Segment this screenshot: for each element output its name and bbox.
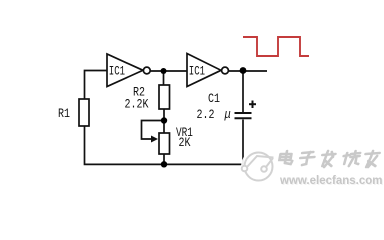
svg-text:IC1: IC1	[189, 65, 205, 79]
svg-text:2.2K: 2.2K	[125, 99, 149, 112]
svg-text:2K: 2K	[179, 137, 191, 150]
svg-text:μ: μ	[224, 108, 231, 122]
svg-text:IC1: IC1	[109, 65, 125, 79]
svg-text:2.2: 2.2	[197, 109, 215, 122]
svg-text:C1: C1	[208, 93, 220, 106]
svg-text:www.elecfans.com: www.elecfans.com	[279, 175, 382, 187]
svg-text:R1: R1	[58, 108, 70, 121]
